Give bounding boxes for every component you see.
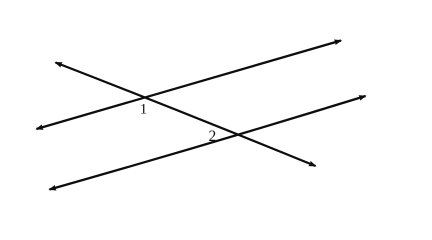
- wire : parallel line 2 with double arrowheads (through angle 2): [50, 96, 366, 190]
- svg-text:2: 2: [209, 128, 217, 145]
- wire : transversal line with double arrowheads: [56, 63, 316, 167]
- svg-text:1: 1: [140, 102, 148, 118]
- wire : parallel line 1 with double arrowheads (through angle 1): [37, 41, 342, 130]
